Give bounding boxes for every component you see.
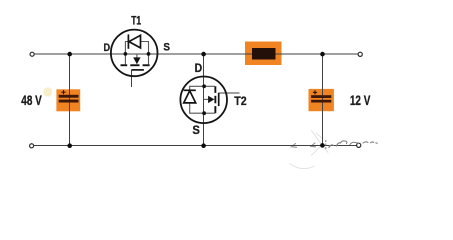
svg-text:D: D xyxy=(104,42,111,54)
svg-text:S: S xyxy=(163,41,170,53)
svg-text:T1: T1 xyxy=(131,14,141,28)
svg-text:D: D xyxy=(195,63,203,75)
svg-text:48 V: 48 V xyxy=(21,93,42,108)
svg-text:12 V: 12 V xyxy=(350,93,371,108)
svg-text:S: S xyxy=(192,125,200,137)
svg-text:T2: T2 xyxy=(234,94,247,108)
